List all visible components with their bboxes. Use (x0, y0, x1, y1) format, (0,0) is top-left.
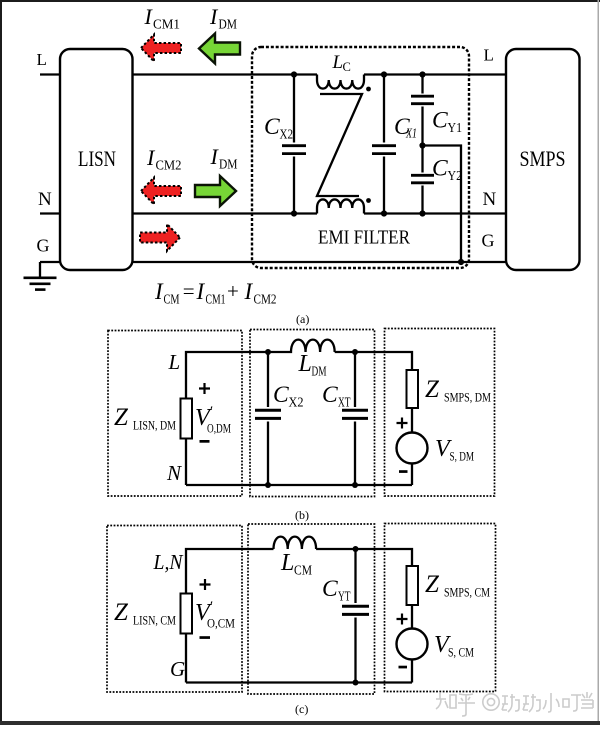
svg-text:L,N: L,N (153, 550, 184, 574)
svg-text:S, DM: S, DM (450, 449, 475, 464)
svg-text:SMPS: SMPS (520, 146, 566, 171)
svg-text:CM1: CM1 (206, 293, 226, 308)
svg-text:LISN: LISN (78, 146, 116, 171)
svg-text:I: I (196, 279, 206, 304)
svg-text:DM: DM (312, 364, 327, 379)
svg-text:(a): (a) (296, 312, 309, 326)
svg-text:C: C (322, 382, 338, 408)
svg-text:Z: Z (114, 599, 129, 626)
svg-text:CM2: CM2 (156, 159, 182, 174)
svg-text:L: L (484, 46, 494, 65)
svg-text:N: N (166, 461, 182, 485)
svg-text:X1: X1 (405, 126, 417, 141)
svg-text:DM: DM (219, 18, 238, 33)
svg-text:Y1: Y1 (448, 120, 463, 135)
svg-text:CM2: CM2 (254, 293, 277, 308)
svg-text:CM1: CM1 (153, 18, 180, 33)
svg-text:O,CM: O,CM (207, 616, 235, 631)
svg-text:(c): (c) (295, 702, 308, 716)
svg-text:X2: X2 (280, 127, 294, 142)
svg-text:X2: X2 (289, 395, 304, 410)
svg-text:N: N (38, 189, 52, 210)
svg-text:L: L (298, 351, 312, 377)
svg-text:+: + (227, 279, 239, 303)
svg-text:LISN, DM: LISN, DM (133, 418, 176, 433)
svg-text:C: C (264, 114, 280, 140)
svg-text:YT: YT (338, 589, 351, 604)
svg-text:O,DM: O,DM (207, 421, 231, 436)
svg-text:C: C (432, 156, 448, 182)
svg-text:S, CM: S, CM (448, 645, 474, 660)
svg-text:CM: CM (164, 293, 180, 308)
svg-text:I: I (244, 279, 254, 304)
svg-text:EMI FILTER: EMI FILTER (318, 227, 411, 249)
svg-text:Z: Z (114, 404, 129, 431)
svg-text:C: C (273, 382, 289, 408)
svg-text:DM: DM (219, 158, 238, 173)
svg-text:(b): (b) (295, 508, 309, 522)
svg-text:CM: CM (294, 563, 312, 578)
svg-text:G: G (37, 236, 50, 256)
svg-text:Z: Z (425, 571, 440, 598)
svg-text:Y2: Y2 (448, 168, 463, 183)
svg-text:G: G (170, 657, 185, 681)
svg-text:I: I (154, 279, 164, 304)
svg-text:C: C (343, 60, 351, 74)
svg-text:Z: Z (425, 376, 440, 403)
svg-text:L: L (332, 52, 344, 73)
svg-text:XT: XT (338, 395, 351, 410)
svg-text:L: L (37, 50, 47, 69)
svg-text:SMPS, CM: SMPS, CM (444, 585, 490, 600)
svg-text:C: C (322, 576, 338, 602)
svg-text:SMPS, DM: SMPS, DM (444, 390, 491, 405)
svg-text:=: = (183, 279, 195, 303)
svg-text:N: N (483, 189, 497, 210)
svg-text:C: C (432, 108, 448, 134)
svg-text:L: L (280, 550, 294, 576)
svg-text:LISN, CM: LISN, CM (133, 613, 176, 628)
svg-text:L: L (168, 350, 181, 374)
svg-text:G: G (482, 231, 495, 251)
